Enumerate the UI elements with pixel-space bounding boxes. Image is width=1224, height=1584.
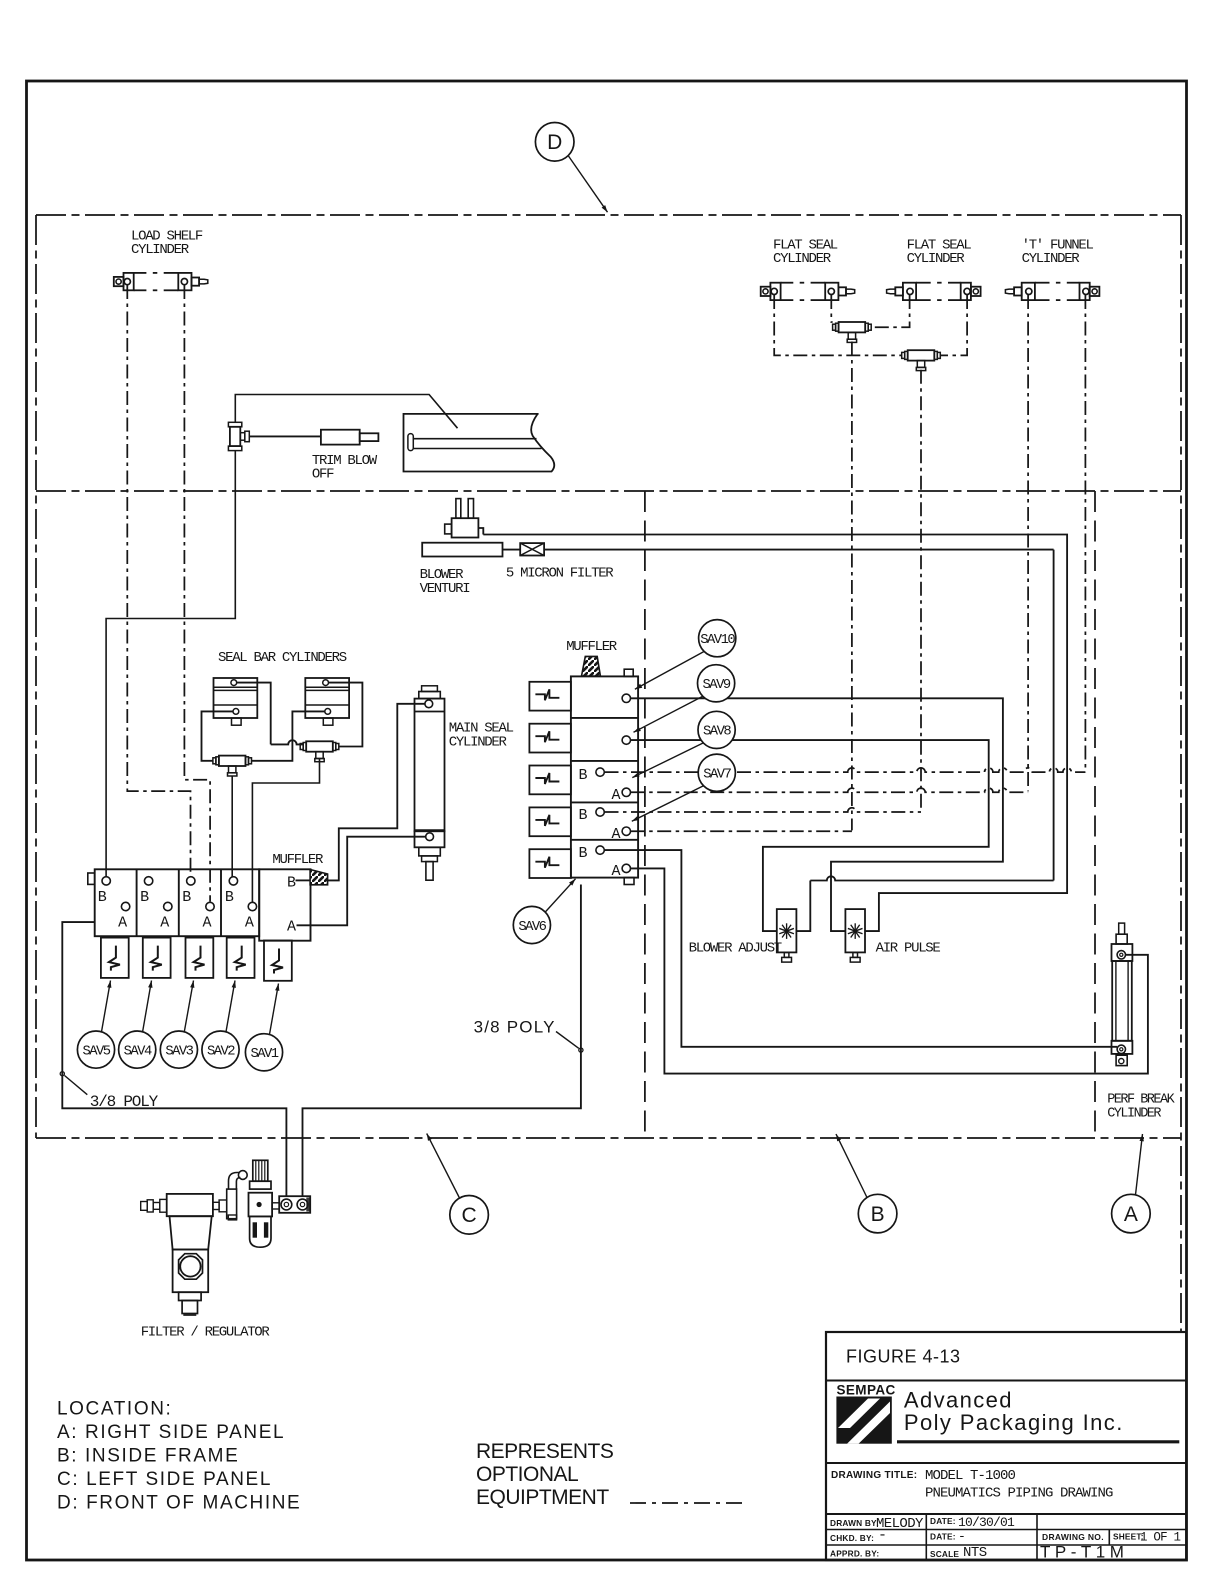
manifold SAV6-SAV10 bbox=[571, 676, 638, 877]
svg-text:SAV5: SAV5 bbox=[82, 1044, 110, 1059]
svg-text:DRAWN BY:: DRAWN BY: bbox=[830, 1518, 879, 1528]
wire venturi upper to air pulse right bbox=[483, 535, 1067, 932]
node A bbox=[1112, 1194, 1151, 1233]
wire 3/8 poly supply to bank bbox=[62, 922, 286, 1196]
region right boundary bbox=[1180, 215, 1182, 1332]
valve4 port B bbox=[229, 877, 237, 885]
SAV8 leader bbox=[632, 743, 703, 778]
node D bbox=[535, 123, 574, 162]
svg-text:A: A bbox=[1124, 1203, 1138, 1226]
svg-text:VENTURI: VENTURI bbox=[420, 581, 470, 597]
svg-text:DRAWING TITLE:: DRAWING TITLE: bbox=[831, 1470, 917, 1481]
svg-text:A: A bbox=[287, 919, 296, 936]
filter/regulator assembly bbox=[141, 1160, 311, 1315]
wire T3 drop to valve4 B bbox=[231, 776, 233, 877]
svg-text:CYLINDER: CYLINDER bbox=[449, 735, 508, 751]
wire SAV8 B to funnel cyl bbox=[605, 768, 1086, 772]
node B bbox=[858, 1194, 897, 1233]
SAV6 leader bbox=[545, 879, 575, 912]
wire SAV6 A to perf break top port bbox=[631, 868, 1148, 1073]
svg-text:A: A bbox=[612, 863, 621, 880]
wire cyl1 portA to T2 bbox=[774, 295, 902, 355]
svg-text:SAV10: SAV10 bbox=[700, 633, 735, 648]
blower adjust valve bbox=[777, 909, 797, 952]
solenoid valve1 box bbox=[264, 941, 292, 981]
3/8 poly marker right bbox=[579, 1048, 583, 1052]
region divider B/C bbox=[644, 491, 646, 1138]
main seal cylinder bbox=[415, 686, 445, 880]
wire sealcyl1 bottom port to T3 bbox=[202, 711, 233, 760]
svg-text:B: B bbox=[871, 1203, 885, 1226]
svg-text:B: B bbox=[140, 889, 149, 906]
valve3 port A bbox=[206, 902, 214, 910]
svg-text:A: A bbox=[118, 915, 127, 932]
wire sealcyl2 top port to T4 bbox=[329, 683, 363, 747]
svg-text:SAV6: SAV6 bbox=[518, 920, 546, 935]
wire cyl1 portB to T1 bbox=[831, 295, 832, 322]
svg-text:DRAWING NO.: DRAWING NO. bbox=[1042, 1532, 1104, 1542]
svg-text:3/8 POLY: 3/8 POLY bbox=[90, 1093, 159, 1111]
trim tube slot bbox=[413, 439, 541, 449]
svg-text:SAV3: SAV3 bbox=[165, 1044, 193, 1059]
svg-text:SAV1: SAV1 bbox=[250, 1047, 278, 1062]
svg-text:D: FRONT OF MACHINE: D: FRONT OF MACHINE bbox=[57, 1493, 301, 1514]
wire sealcyl1 top port to T4 bbox=[271, 740, 303, 744]
svg-text:Poly Packaging Inc.: Poly Packaging Inc. bbox=[904, 1410, 1124, 1435]
seal bar cylinders bbox=[214, 678, 258, 725]
wire SAV10 to air pulse left bbox=[631, 698, 1003, 931]
air pulse valve bbox=[845, 909, 865, 952]
svg-text:B: B bbox=[579, 807, 588, 824]
tee fitting T4 bbox=[300, 741, 339, 761]
svg-text:SAV7: SAV7 bbox=[703, 768, 731, 783]
wire funnel portA drop to SAV8 B bbox=[1084, 295, 1086, 772]
valve1 port A bbox=[121, 902, 129, 910]
title block bbox=[826, 1332, 1186, 1560]
wire tee up and over to trim tube bbox=[235, 395, 457, 429]
muffler on valve5 bbox=[310, 870, 328, 885]
wire cyl2 portA to T2 bbox=[940, 295, 967, 355]
SAV2 leader bbox=[226, 981, 235, 1032]
svg-text:B: B bbox=[287, 875, 296, 892]
svg-text:CYLINDER: CYLINDER bbox=[1022, 251, 1081, 267]
manifold solenoid boxes bbox=[529, 682, 571, 711]
svg-text:AIR PULSE: AIR PULSE bbox=[876, 941, 941, 957]
valve3 port B bbox=[187, 877, 195, 885]
svg-text:MUFFLER: MUFFLER bbox=[272, 852, 324, 868]
svg-text:DATE:: DATE: bbox=[930, 1532, 956, 1542]
svg-text:OFF: OFF bbox=[312, 467, 334, 483]
'T' funnel cylinder bbox=[1005, 283, 1099, 300]
SAV1 leader bbox=[270, 984, 279, 1035]
flat seal cylinder 1 bbox=[761, 283, 855, 300]
valve4 port A bbox=[248, 902, 256, 910]
wire SAV9 to blower adjust left bbox=[631, 740, 989, 931]
svg-text:-: - bbox=[878, 1527, 887, 1544]
wire funnel portB drop to SAV8 A bbox=[1027, 295, 1029, 791]
wire SAV6 B to perf break bottom port bbox=[605, 850, 1118, 1047]
tee fitting T3 bbox=[213, 756, 252, 776]
svg-text:SAV2: SAV2 bbox=[207, 1044, 235, 1059]
svg-text:APPRD. BY:: APPRD. BY: bbox=[830, 1549, 879, 1559]
svg-text:B: B bbox=[182, 889, 191, 906]
5 micron filter bbox=[520, 543, 544, 555]
svg-text:5 MICRON FILTER: 5 MICRON FILTER bbox=[506, 565, 614, 581]
svg-text:1 OF 1: 1 OF 1 bbox=[1140, 1531, 1181, 1545]
svg-text:PNEUMATICS PIPING DRAWING: PNEUMATICS PIPING DRAWING bbox=[925, 1486, 1113, 1502]
SAV6 circle bbox=[513, 906, 550, 943]
valve1 port B bbox=[102, 877, 110, 885]
svg-text:A: A bbox=[203, 915, 212, 932]
region left boundary bbox=[35, 215, 37, 1138]
svg-text:SCALE: SCALE bbox=[930, 1549, 959, 1559]
svg-text:B: B bbox=[579, 845, 588, 862]
svg-text:B: INSIDE FRAME: B: INSIDE FRAME bbox=[57, 1446, 239, 1467]
svg-text:C: C bbox=[462, 1204, 477, 1227]
svg-text:A: A bbox=[612, 826, 621, 843]
solenoid valve5 box bbox=[101, 938, 129, 978]
blower venturi bbox=[422, 499, 502, 557]
svg-text:A: A bbox=[612, 787, 621, 804]
tee fitting T2 (flat seal pair) bbox=[902, 350, 941, 370]
wire tee down to SAV bank valve1 B bbox=[106, 451, 235, 877]
svg-text:BLOWER ADJUST: BLOWER ADJUST bbox=[689, 941, 782, 957]
wire SAV7 A to tee T1 bbox=[631, 830, 852, 832]
valve bank SAV1-SAV5 bbox=[95, 869, 260, 936]
wire sealcyl2 bottom port to T3 bbox=[252, 711, 325, 760]
wire cyl2 portB to T1 bbox=[871, 295, 909, 327]
3/8 poly marker left bbox=[60, 1072, 64, 1076]
svg-text:Advanced: Advanced bbox=[904, 1388, 1013, 1413]
svg-text:MUFFLER: MUFFLER bbox=[566, 639, 618, 655]
svg-text:CYLINDER: CYLINDER bbox=[907, 251, 966, 267]
svg-text:A: RIGHT SIDE PANEL: A: RIGHT SIDE PANEL bbox=[57, 1422, 285, 1443]
wire main seal top port from muffler5 bbox=[328, 704, 425, 881]
wire tee to trim nozzle bbox=[249, 435, 321, 437]
svg-text:SAV4: SAV4 bbox=[124, 1044, 152, 1059]
solenoid valve2 box bbox=[227, 938, 255, 978]
svg-text:SEAL BAR CYLINDERS: SEAL BAR CYLINDERS bbox=[218, 650, 347, 666]
svg-text:C: LEFT SIDE PANEL: C: LEFT SIDE PANEL bbox=[57, 1469, 272, 1490]
svg-text:10/30/01: 10/30/01 bbox=[958, 1515, 1015, 1530]
svg-text:FILTER / REGULATOR: FILTER / REGULATOR bbox=[141, 1325, 271, 1341]
wire regulator out to manifold SAV6-10 bbox=[303, 885, 581, 1197]
svg-text:OPTIONAL: OPTIONAL bbox=[476, 1463, 578, 1486]
trim blow off nozzle bbox=[321, 430, 360, 445]
svg-text:DATE:: DATE: bbox=[930, 1516, 956, 1526]
node C bbox=[450, 1196, 489, 1235]
svg-text:CYLINDER: CYLINDER bbox=[131, 242, 190, 258]
svg-text:CYLINDER: CYLINDER bbox=[1107, 1107, 1161, 1122]
SAV8 circle bbox=[698, 711, 735, 748]
svg-text:EQUIPTMENT: EQUIPTMENT bbox=[476, 1486, 609, 1509]
wire load shelf left port drop bbox=[127, 285, 190, 876]
tee fitting T1 (flat seal pair) bbox=[833, 322, 872, 342]
svg-text:LOCATION:: LOCATION: bbox=[57, 1399, 172, 1420]
svg-text:CHKD. BY:: CHKD. BY: bbox=[830, 1533, 874, 1543]
wire filter lower to blower adjust right bbox=[503, 549, 521, 551]
muffler on manifold bbox=[582, 656, 601, 676]
svg-text:B: B bbox=[98, 889, 107, 906]
trim tube bbox=[404, 414, 555, 472]
SAV9 leader bbox=[634, 696, 703, 732]
SAV3 leader bbox=[184, 981, 193, 1032]
SAV9 circle bbox=[698, 665, 735, 702]
perf break cylinder bbox=[1112, 923, 1133, 1066]
svg-text:TP-T1M: TP-T1M bbox=[1040, 1543, 1128, 1562]
SAV7 leader bbox=[632, 786, 704, 822]
SAV10 leader bbox=[635, 652, 704, 690]
region D top boundary bbox=[36, 214, 1181, 216]
svg-text:3/8 POLY: 3/8 POLY bbox=[474, 1018, 556, 1037]
svg-text:D: D bbox=[547, 131, 562, 154]
wire T2 drop to SAV7 B bbox=[920, 370, 922, 812]
svg-text:MODEL T-1000: MODEL T-1000 bbox=[925, 1468, 1016, 1484]
SAV10 circle bbox=[699, 620, 736, 657]
manifold ports bbox=[622, 694, 630, 702]
valve2 port B bbox=[144, 877, 152, 885]
trim blow off tee fitting bbox=[228, 422, 249, 450]
SAV7 circle bbox=[698, 754, 735, 791]
wire SAV8 A to funnel cyl bbox=[631, 788, 1028, 792]
svg-text:A: A bbox=[160, 915, 169, 932]
SAV4 leader bbox=[143, 981, 152, 1032]
svg-text:SAV9: SAV9 bbox=[703, 678, 731, 693]
svg-text:A: A bbox=[245, 915, 254, 932]
flat seal cylinder 2 bbox=[887, 283, 981, 300]
region bottom boundary bbox=[36, 1137, 1181, 1139]
SAV5 leader bbox=[102, 981, 111, 1032]
svg-text:B: B bbox=[225, 889, 234, 906]
region divider A/B bbox=[1094, 491, 1096, 1138]
svg-text:FIGURE 4-13: FIGURE 4-13 bbox=[846, 1347, 961, 1367]
svg-text:PERF BREAK: PERF BREAK bbox=[1107, 1092, 1175, 1107]
wire SAV7 B to tee T2 bbox=[605, 808, 922, 812]
svg-text:-: - bbox=[958, 1529, 966, 1544]
svg-text:B: B bbox=[579, 767, 588, 784]
SAV circles bbox=[77, 1031, 114, 1068]
svg-text:CYLINDER: CYLINDER bbox=[773, 251, 832, 267]
solenoid valve3 box bbox=[186, 938, 214, 978]
load shelf cylinder bbox=[114, 273, 208, 290]
wire load shelf right port drop bbox=[184, 285, 210, 902]
region middle boundary bbox=[36, 490, 1181, 492]
svg-text:SAV8: SAV8 bbox=[703, 725, 731, 740]
wire T4 drop to valve4 A bbox=[252, 759, 319, 902]
wire main seal bottom port to valve5 A bbox=[297, 837, 426, 926]
valve2 port A bbox=[164, 902, 172, 910]
svg-text:SEMPAC: SEMPAC bbox=[837, 1383, 896, 1398]
solenoid valve4 box bbox=[143, 938, 171, 978]
wire T1 drop to SAV7 A bbox=[851, 342, 853, 831]
svg-text:NTS: NTS bbox=[963, 1545, 987, 1561]
svg-text:REPRESENTS: REPRESENTS bbox=[476, 1440, 614, 1463]
